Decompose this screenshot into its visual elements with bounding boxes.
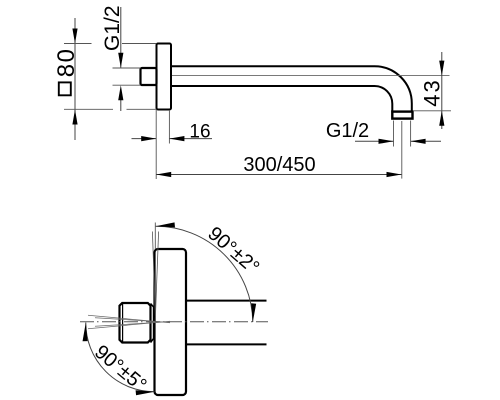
arm tube outer contour with 90-degree bend xyxy=(171,66,412,111)
svg-text:G1/2: G1/2 xyxy=(326,120,369,142)
svg-text:43: 43 xyxy=(419,78,444,106)
label square-80 text xyxy=(53,48,80,96)
angle arc 90 plus/minus 5 degrees xyxy=(83,322,155,395)
arm tube inner contour with bend xyxy=(171,86,392,112)
dimension 43 (drop height) xyxy=(413,52,451,129)
tube centerline (thin, also 43 dim extension) xyxy=(172,75,450,77)
vertical extension line above flange xyxy=(154,223,156,250)
tolerance fan lines (plus/minus 5 degrees) xyxy=(88,315,170,328)
tube (enlarged, going right) xyxy=(186,300,267,302)
dash-dot centerline xyxy=(80,321,268,323)
dimension 300/450 (arm length) xyxy=(156,121,402,179)
svg-text:300/450: 300/450 xyxy=(243,154,315,176)
thread stub (enlarged) with chamfered corners xyxy=(120,303,151,343)
flange (enlarged profile view) xyxy=(155,249,187,395)
stub thread chamfer inner line xyxy=(122,304,124,343)
dimension 16 (flange thickness) xyxy=(132,110,213,179)
G1/2 wall thread stub (side view) xyxy=(141,68,157,85)
dimension G1/2 (wall thread) xyxy=(113,7,141,111)
stub neck transition to flange xyxy=(151,304,154,343)
threaded tip G1/2 at bend end xyxy=(392,112,412,119)
tolerance fan lines (plus/minus 2 degrees, above flange) xyxy=(152,232,158,323)
svg-text:80: 80 xyxy=(53,48,80,78)
svg-text:G1/2: G1/2 xyxy=(101,5,124,51)
wall flange (escutcheon, side view) xyxy=(157,44,172,110)
angle arc 90 plus/minus 2 degrees xyxy=(155,222,256,322)
svg-text:16: 16 xyxy=(189,122,210,143)
dimension square-80 (flange size) xyxy=(64,18,157,140)
dimension G1/2 (outlet thread) xyxy=(355,121,441,147)
